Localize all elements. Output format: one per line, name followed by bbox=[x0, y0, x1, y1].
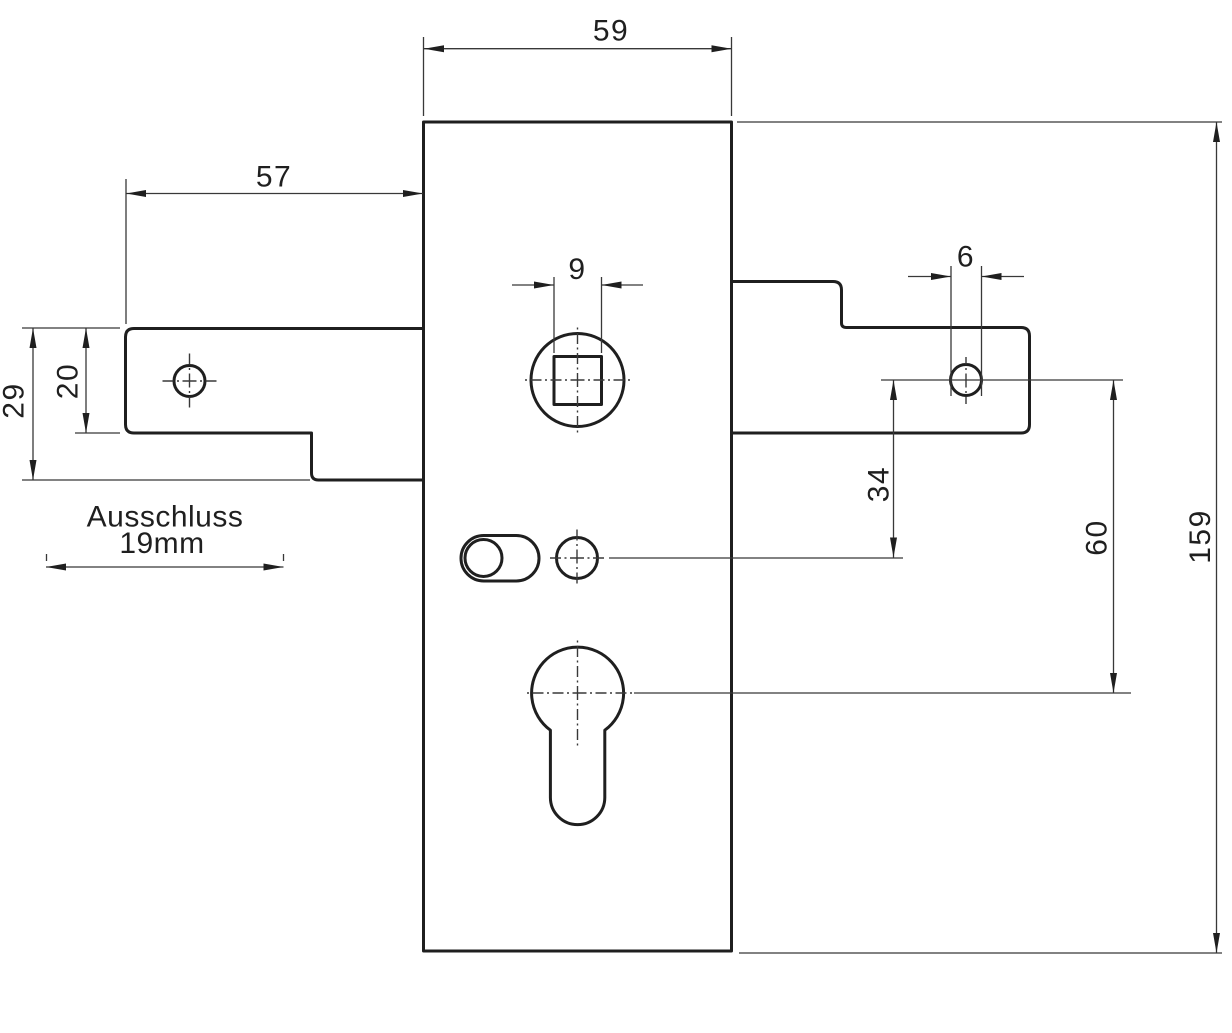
Ausschluss dimension ticks bbox=[47, 554, 284, 561]
svg-text:29: 29 bbox=[0, 382, 31, 418]
dimension 6 extension lines bbox=[951, 266, 982, 396]
dimension 6 line bbox=[908, 276, 1024, 278]
right tab hole bbox=[951, 365, 982, 396]
dimension 9 extension lines bbox=[554, 277, 602, 353]
svg-text:9: 9 bbox=[568, 253, 586, 286]
svg-text:20: 20 bbox=[52, 363, 85, 399]
dimension 159 arrows bbox=[1213, 122, 1220, 953]
dimension 57 extension line bbox=[125, 179, 127, 324]
dimension 159 extension lines bbox=[737, 122, 1222, 953]
svg-text:57: 57 bbox=[256, 161, 292, 194]
svg-text:34: 34 bbox=[863, 466, 896, 502]
spindle circle bbox=[531, 334, 624, 427]
spindle centerlines bbox=[525, 328, 630, 433]
right hole centerline bbox=[965, 357, 967, 404]
svg-text:59: 59 bbox=[593, 15, 629, 48]
dimension 34 arrows bbox=[890, 380, 897, 558]
middle hole leader line bbox=[609, 557, 903, 559]
latch hole bbox=[174, 366, 205, 397]
svg-text:159: 159 bbox=[1184, 509, 1217, 564]
dimension 34 line bbox=[893, 380, 895, 558]
cylinder centerlines bbox=[527, 641, 632, 746]
dimension 9 line bbox=[512, 284, 643, 286]
middle hole bbox=[557, 538, 598, 579]
latch bolt outline bbox=[126, 329, 424, 481]
Ausschluss dimension line bbox=[46, 566, 284, 568]
latch hole centerlines bbox=[163, 354, 217, 408]
dimension 9 arrows bbox=[534, 282, 622, 289]
dimension 57 line bbox=[126, 193, 423, 195]
svg-text:6: 6 bbox=[957, 241, 975, 274]
oval slot bbox=[461, 536, 539, 582]
dimension 60 arrows bbox=[1110, 380, 1117, 693]
svg-text:19mm: 19mm bbox=[119, 527, 204, 560]
right tab outline bbox=[732, 282, 1030, 434]
lock case outline bbox=[424, 122, 732, 951]
dimension 29 arrows bbox=[30, 328, 37, 480]
cylinder keyhole outline bbox=[532, 647, 624, 825]
cylinder leader line bbox=[634, 692, 1131, 694]
dimension 29 extension lines bbox=[22, 328, 310, 480]
dimension 159 line bbox=[1216, 122, 1218, 953]
dimension 57 arrows bbox=[126, 190, 423, 197]
dimension 59 extension lines bbox=[424, 37, 732, 116]
dimension 20 arrows bbox=[83, 328, 90, 433]
spindle square bbox=[554, 357, 602, 405]
dimension 29 line bbox=[32, 328, 34, 480]
Ausschluss dimension arrows bbox=[46, 564, 284, 571]
dimension 20 extension line bbox=[75, 432, 120, 434]
svg-text:60: 60 bbox=[1081, 519, 1114, 555]
dimension 59 arrows bbox=[424, 45, 732, 52]
dimension 6 arrows bbox=[931, 273, 1002, 280]
hole axis extension line bbox=[881, 379, 1123, 381]
dimension 60 line bbox=[1113, 380, 1115, 693]
dimension 20 line bbox=[85, 328, 87, 433]
dimension 59 line bbox=[424, 48, 732, 50]
slot circle bbox=[465, 540, 502, 577]
middle hole centerlines bbox=[550, 530, 604, 584]
